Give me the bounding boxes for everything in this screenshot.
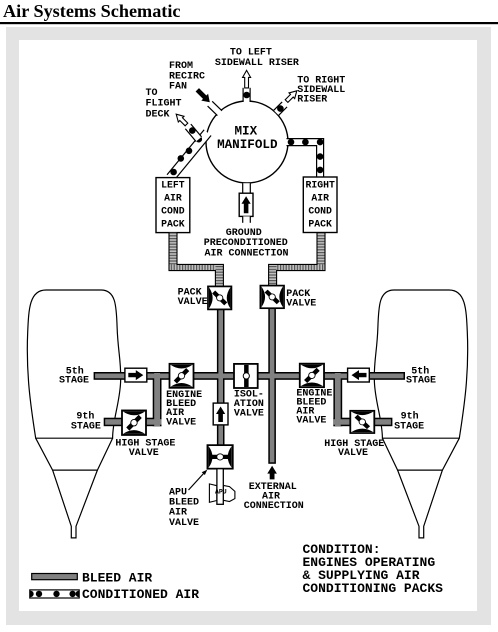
ground connection stub upper [243,183,251,193]
APU check valve [213,403,228,425]
svg-text:AIR: AIR [311,192,329,203]
svg-text:LEFT: LEFT [161,179,185,190]
pointer line APU label to valve [189,473,205,491]
svg-text:STAGE: STAGE [59,376,89,387]
recirc fan duct stub [208,101,222,115]
left pack to manifold duct [167,130,211,181]
svg-text:CONNECTION: CONNECTION [244,501,304,512]
svg-text:BLEED AIR: BLEED AIR [82,571,152,586]
legend conditioned air bar [30,590,79,598]
wire: main bleed manifold duct (outline) [94,372,405,380]
left pack supply ribbon [169,233,177,271]
wire: left high stage riser duct (gray core) [154,373,160,426]
svg-text:MIX: MIX [234,125,257,139]
svg-text:CONDITIONING PACKS: CONDITIONING PACKS [303,581,444,596]
wire: left high stage valve stub duct (gray core) [145,419,162,425]
wire: right high stage riser duct (outline) [333,373,342,426]
svg-text:VALVE: VALVE [166,417,196,428]
svg-text:VALVE: VALVE [286,298,316,309]
svg-text:AIR: AIR [164,192,182,203]
wire: right high stage riser duct (gray core) [335,373,341,426]
title underline rule [0,22,498,24]
high stage valve left [122,410,146,434]
flight deck branch duct [185,124,201,141]
wire: APU check valve to APU valve duct (outline) [217,425,225,446]
svg-text:RIGHT: RIGHT [305,179,335,190]
svg-text:Air Systems Schematic: Air Systems Schematic [3,1,180,21]
isolation valve [234,364,258,388]
ground connection stub lower [243,216,251,222]
APU unit [209,469,235,505]
manifold to right pack duct [287,139,324,178]
arrow to right sidewall riser [285,91,297,103]
high stage valve right [350,411,374,433]
svg-text:MANIFOLD: MANIFOLD [217,138,278,152]
svg-text:VALVE: VALVE [234,409,264,420]
engine bleed air valve left [170,364,194,388]
mix manifold [206,101,288,183]
svg-text:FLIGHT: FLIGHT [146,99,182,110]
duct stub to right sidewall riser [274,102,287,115]
svg-text:VALVE: VALVE [296,415,326,426]
svg-text:VALVE: VALVE [129,448,159,459]
check valve right 5th stage [348,368,370,382]
right engine nacelle [374,290,467,538]
check valve left 5th stage [125,368,147,382]
svg-text:STAGE: STAGE [71,422,101,433]
wire: left pack valve to manifold duct (outline) [217,309,225,404]
svg-text:SIDEWALL RISER: SIDEWALL RISER [215,58,299,69]
svg-text:VALVE: VALVE [338,448,368,459]
svg-text:RISER: RISER [297,94,327,105]
wire: right 9th stage duct (gray core) [374,419,391,425]
wire: left high stage valve stub duct (outline) [145,418,162,427]
wire: left 9th stage duct (gray core) [105,419,123,425]
wire: right high stage valve stub duct (outline) [333,418,350,427]
wire: right high stage valve stub duct (gray core) [333,419,350,425]
arrow to left sidewall riser [243,70,251,88]
right pack supply ribbon [317,233,325,271]
svg-text:CONDITIONED AIR: CONDITIONED AIR [82,587,199,602]
wire: left 9th stage duct (outline) [104,418,124,427]
arrow from recirc fan [196,88,210,102]
svg-text:PACK: PACK [308,218,332,229]
wire: APU check valve to APU valve duct (gray core) [218,425,223,446]
svg-text:PACK: PACK [161,218,185,229]
left engine nacelle [27,290,120,538]
pack valve left [208,286,231,309]
svg-text:DECK: DECK [146,109,170,120]
engine bleed air valve right [300,364,324,388]
arrow to flight deck [176,114,188,126]
svg-text:TO: TO [146,88,158,99]
wire: left pack valve to manifold duct (gray core) [218,309,223,404]
left air cond pack box [156,178,190,233]
APU bleed air valve [208,445,233,469]
svg-text:VALVE: VALVE [178,297,208,308]
svg-text:FAN: FAN [169,82,187,93]
wire: right pack valve / external air duct (gray core) [270,308,275,463]
arrow external air connection [267,466,277,480]
pack valve right [260,286,284,309]
wire: right pack valve / external air duct (outline) [268,308,276,464]
svg-text:APU: APU [215,488,227,495]
duct stub to left sidewall riser [243,88,250,102]
svg-text:AIR CONNECTION: AIR CONNECTION [204,248,288,259]
svg-text:COND: COND [308,205,332,216]
wire: main bleed manifold duct (gray core) [95,374,403,379]
legend bleed air bar [32,574,78,580]
svg-text:COND: COND [161,205,185,216]
wire: right 9th stage duct (outline) [374,418,392,427]
ground check valve [239,193,253,216]
svg-text:STAGE: STAGE [406,376,436,387]
svg-text:VALVE: VALVE [169,518,199,529]
right air cond pack box [303,177,337,233]
svg-text:STAGE: STAGE [394,422,424,433]
wire: left high stage riser duct (outline) [153,373,162,426]
